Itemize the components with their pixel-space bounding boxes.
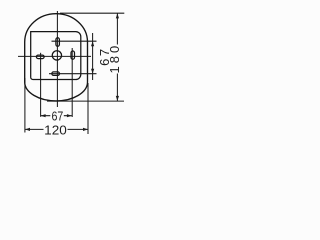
extension line oval right [87, 83, 89, 134]
arrow 120 right [83, 128, 88, 131]
arrow 67-right down [91, 69, 94, 74]
arrow 120 left [25, 128, 30, 131]
mounting plate rectangle [31, 32, 81, 80]
vertical centerline [56, 11, 58, 107]
fixture body outline (oval) [25, 14, 88, 101]
svg-text:180: 180 [107, 43, 122, 74]
top mounting hole [56, 38, 60, 47]
extension line bottom hole [49, 73, 97, 75]
label 120 [44, 124, 68, 134]
right mounting hole [71, 51, 75, 59]
arrow 67-right up [91, 41, 94, 46]
dimension line 120 [25, 128, 88, 130]
extension line top hole [52, 40, 97, 42]
arrow 180 down [116, 96, 119, 101]
center hole circle [52, 51, 61, 60]
arrow 180 up [116, 13, 119, 18]
extension line oval left [24, 78, 26, 133]
label 180 [110, 45, 121, 74]
dimension line 67 right [92, 33, 94, 80]
arrow 67-bottom right [67, 114, 72, 117]
label 67 bottom [50, 110, 64, 121]
arrow 67-bottom left [41, 114, 46, 117]
dimension line 180 [116, 13, 118, 101]
dimension line 67 bottom [41, 115, 72, 117]
horizontal centerline [18, 55, 91, 57]
svg-text:120: 120 [44, 122, 67, 137]
left mounting hole [36, 55, 44, 59]
extension line left hole [40, 53, 42, 117]
bottom mounting hole [52, 72, 60, 76]
extension line right hole [71, 48, 73, 117]
label 67 right [99, 48, 110, 66]
extension line oval top [60, 12, 124, 14]
extension line oval bottom [47, 100, 124, 102]
svg-text:67: 67 [52, 108, 64, 123]
